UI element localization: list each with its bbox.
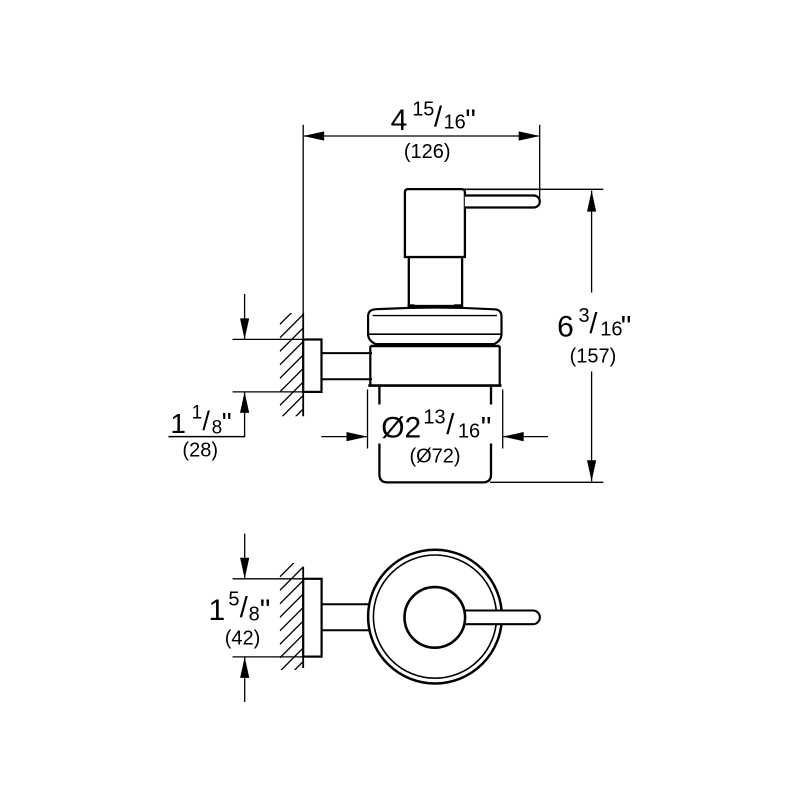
mount plate (top view)	[303, 579, 321, 657]
svg-text:1: 1	[192, 403, 203, 424]
dimension text 1 5/8"	[209, 589, 271, 628]
dimension 1 1/8 (28): down arrow	[240, 294, 249, 339]
dimension text 6 3/16"	[557, 305, 631, 343]
svg-text:1: 1	[209, 594, 226, 627]
neck base fillet right	[454, 304, 463, 307]
svg-text:4: 4	[391, 104, 408, 137]
collar inner contour line 1	[373, 315, 497, 317]
dimension 6 3/16 (157): bottom extension line	[490, 481, 603, 483]
pump neck (side view)	[409, 257, 462, 306]
collar bottom edge	[376, 343, 493, 345]
dimension 1 5/8 (42): down arrow	[240, 534, 249, 579]
svg-text:16: 16	[600, 319, 622, 341]
svg-text:Ø2: Ø2	[381, 411, 421, 444]
dimension O72: right arrow	[503, 432, 548, 441]
svg-text:16: 16	[444, 111, 466, 133]
glass bottle body (side view)	[379, 387, 491, 483]
collar inner contour line 2	[369, 333, 501, 335]
dimension text 4 15/16"	[391, 99, 476, 138]
dimension 1 1/8 (28): extension lines	[233, 339, 304, 392]
svg-text:(126): (126)	[404, 141, 451, 163]
dimension 4 15/16 (126): extension line right	[539, 125, 541, 200]
svg-text:1: 1	[170, 408, 186, 439]
spout top silhouette line (side view)	[464, 188, 539, 190]
svg-text:8: 8	[212, 418, 223, 439]
holder ring (side view)	[368, 346, 501, 386]
dimension O72: left arrow	[321, 432, 367, 441]
svg-text:": "	[222, 407, 232, 438]
pump head (side view)	[405, 189, 465, 257]
spout (top view)	[460, 611, 540, 625]
svg-text:(42): (42)	[225, 627, 261, 649]
mount arm (side view)	[322, 353, 373, 379]
dimension text 1 1/8"	[170, 403, 231, 439]
pump cap circle (top view)	[405, 587, 466, 648]
svg-text:/: /	[446, 409, 455, 441]
svg-text:": "	[621, 310, 632, 343]
dimension 1 1/8 (28): up arrow with leader	[168, 392, 249, 437]
svg-text:/: /	[434, 102, 443, 134]
svg-text:": "	[260, 594, 271, 627]
svg-text:(157): (157)	[570, 345, 617, 367]
neck base fillet left	[408, 304, 415, 307]
wall face line (top view)	[302, 567, 304, 668]
dimension 1 5/8 (42): extension lines	[233, 579, 304, 657]
svg-text:3: 3	[579, 305, 590, 327]
mount plate (side view)	[303, 340, 321, 392]
svg-text:/: /	[202, 406, 210, 436]
mount arm (top view)	[322, 604, 375, 630]
spout nozzle capsule (side view)	[465, 196, 540, 208]
wall hatching (side view)	[280, 301, 303, 432]
dimension text O2 13/16"	[381, 407, 491, 445]
svg-text:13: 13	[423, 407, 445, 429]
svg-text:": "	[481, 411, 492, 444]
white backing for O2 13/16 text	[378, 405, 494, 444]
dimension 6 3/16 (157): top extension line	[540, 188, 604, 190]
white backing for 6 3/16 text	[552, 293, 637, 372]
dimension O72: extension lines	[368, 390, 503, 449]
svg-text:6: 6	[557, 310, 574, 343]
dimension 4 15/16 (126): dimension line with arrows	[303, 131, 540, 140]
dimension 6 3/16 (157): vertical dimension line with arrows	[587, 191, 596, 482]
svg-text:(Ø72): (Ø72)	[409, 445, 460, 467]
svg-text:/: /	[240, 592, 249, 624]
svg-text:": "	[465, 104, 476, 137]
svg-text:8: 8	[249, 603, 260, 625]
svg-text:16: 16	[458, 420, 480, 442]
svg-text:/: /	[589, 308, 598, 340]
holder outer circle (top view)	[368, 550, 502, 684]
holder inner ring circle (top view)	[373, 555, 496, 678]
svg-text:(28): (28)	[182, 439, 218, 461]
svg-text:5: 5	[228, 589, 239, 611]
wall hatching (top view)	[280, 554, 303, 699]
white backing for (O72) text	[404, 444, 466, 466]
wall face line (side view)	[302, 125, 304, 417]
bottle collar dome (side view)	[368, 308, 501, 345]
dimension 1 5/8 (42): up arrow	[240, 657, 249, 702]
svg-text:15: 15	[412, 99, 434, 121]
